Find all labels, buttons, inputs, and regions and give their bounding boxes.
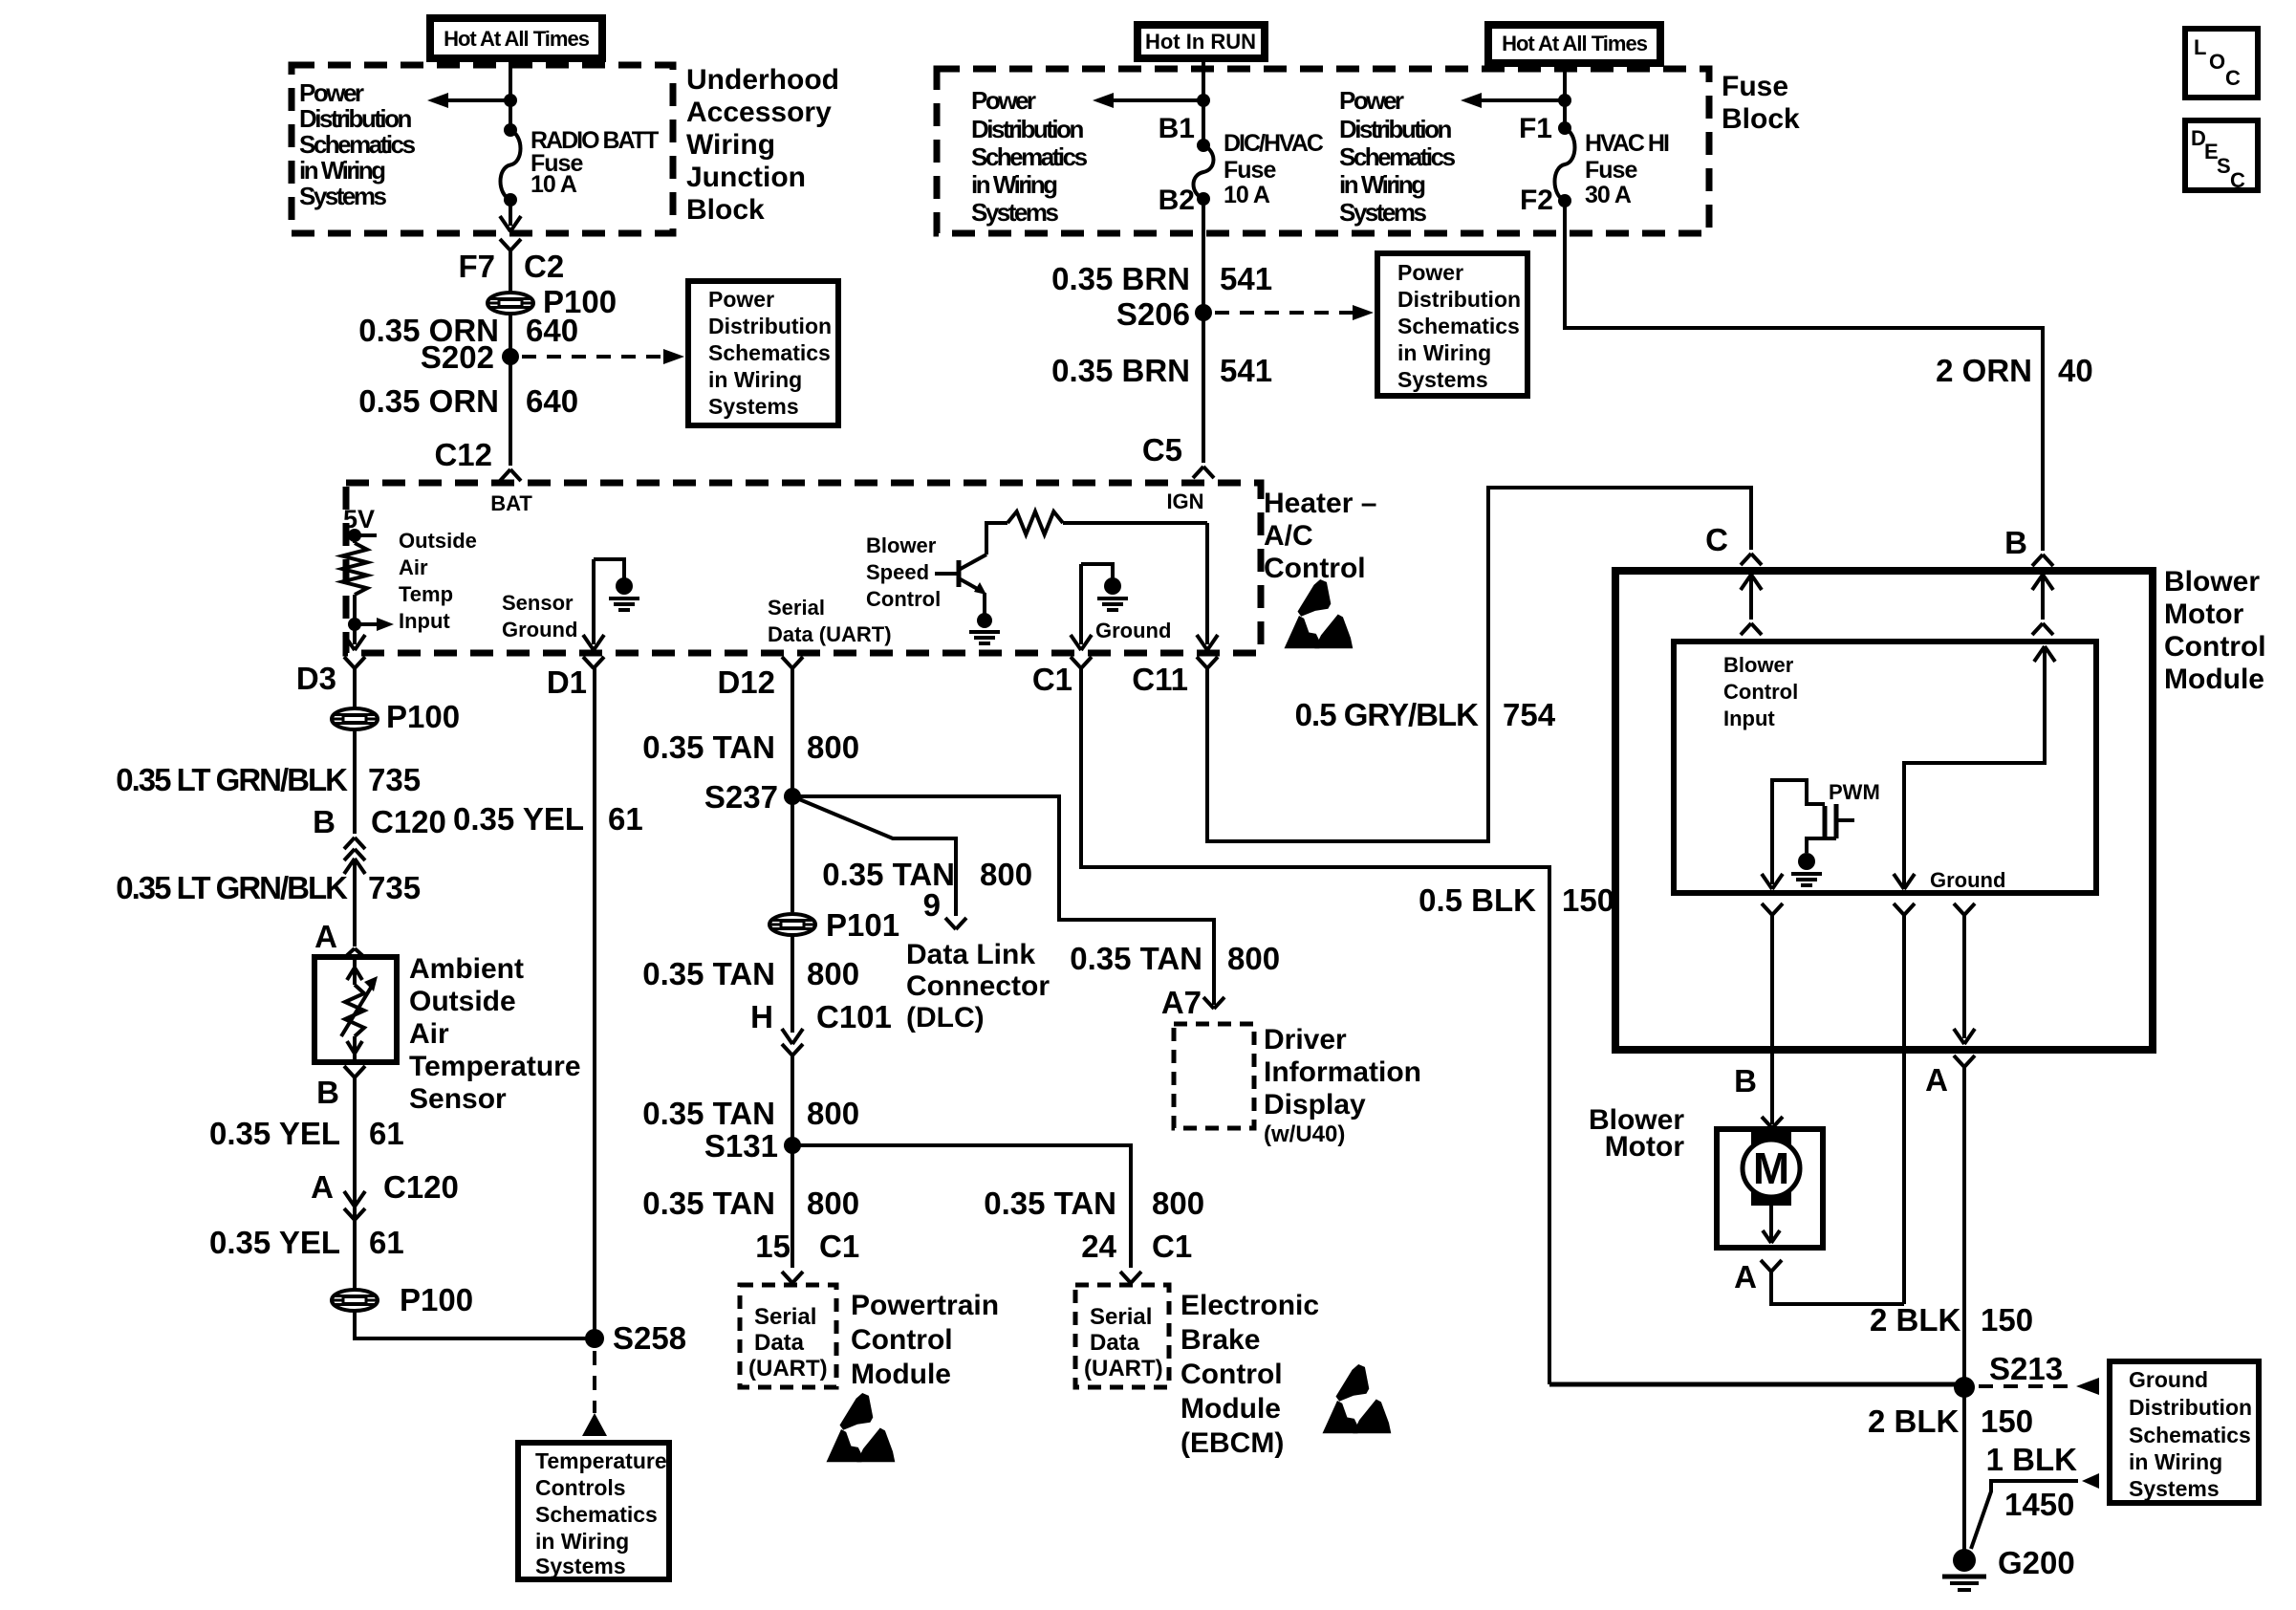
svg-text:Wiring: Wiring (686, 129, 775, 161)
svg-text:Fuse: Fuse (1224, 157, 1276, 184)
svg-text:Ground: Ground (1095, 619, 1171, 642)
svg-text:Schematics: Schematics (708, 340, 831, 365)
svg-text:Accessory: Accessory (686, 97, 832, 128)
svg-text:150: 150 (1981, 1302, 2033, 1338)
svg-text:HVAC HI: HVAC HI (1585, 130, 1669, 157)
svg-text:A/C: A/C (1264, 520, 1313, 552)
svg-text:B1: B1 (1159, 113, 1195, 144)
svg-text:A7: A7 (1161, 985, 1202, 1020)
svg-text:Ground: Ground (2129, 1367, 2208, 1392)
svg-text:Distribution: Distribution (708, 314, 832, 338)
svg-text:C120: C120 (371, 804, 446, 839)
svg-text:Block: Block (686, 194, 765, 226)
svg-text:in Wiring: in Wiring (299, 156, 385, 185)
svg-text:30 A: 30 A (1585, 182, 1632, 208)
svg-text:Distribution: Distribution (1397, 287, 1521, 312)
svg-text:Powertrain: Powertrain (851, 1290, 999, 1321)
svg-text:Systems: Systems (1397, 367, 1488, 392)
svg-text:C101: C101 (816, 999, 892, 1034)
svg-text:(UART): (UART) (748, 1356, 828, 1382)
svg-text:Data: Data (754, 1330, 805, 1356)
svg-text:Power: Power (299, 78, 364, 107)
svg-text:in Wiring: in Wiring (1339, 170, 1425, 199)
svg-text:S237: S237 (704, 779, 778, 815)
svg-text:Outside: Outside (399, 529, 477, 553)
svg-text:800: 800 (807, 956, 859, 991)
svg-text:800: 800 (1152, 1186, 1204, 1221)
svg-text:Electronic: Electronic (1180, 1290, 1319, 1321)
svg-text:Schematics: Schematics (299, 130, 416, 159)
svg-text:(EBCM): (EBCM) (1180, 1427, 1284, 1459)
svg-text:A: A (314, 919, 337, 954)
svg-text:0.35 ORN: 0.35 ORN (358, 383, 499, 419)
svg-text:Power: Power (971, 86, 1036, 115)
svg-text:DIC/HVAC: DIC/HVAC (1224, 130, 1324, 157)
svg-text:Distribution: Distribution (299, 104, 411, 133)
svg-text:Temp: Temp (399, 582, 453, 606)
svg-text:Ground: Ground (502, 618, 577, 642)
svg-text:S131: S131 (704, 1128, 778, 1164)
svg-text:Distribution: Distribution (1339, 115, 1451, 143)
svg-text:Ambient: Ambient (409, 953, 524, 985)
svg-text:Module: Module (1180, 1393, 1281, 1425)
svg-text:Module: Module (851, 1359, 951, 1390)
svg-text:Schematics: Schematics (1397, 314, 1520, 338)
svg-text:C: C (2230, 168, 2245, 192)
svg-text:Input: Input (1723, 707, 1775, 730)
svg-text:H: H (750, 999, 773, 1034)
svg-text:10 A: 10 A (531, 171, 577, 198)
svg-text:C5: C5 (1142, 432, 1182, 468)
svg-text:S213: S213 (1989, 1351, 2063, 1386)
svg-text:150: 150 (1981, 1403, 2033, 1439)
svg-text:9: 9 (923, 887, 941, 923)
svg-text:Sensor: Sensor (502, 591, 574, 615)
svg-text:Schematics: Schematics (2129, 1423, 2251, 1447)
svg-text:Connector: Connector (906, 970, 1050, 1002)
svg-text:800: 800 (807, 1096, 859, 1131)
svg-text:800: 800 (980, 857, 1032, 892)
svg-text:Driver: Driver (1264, 1024, 1347, 1055)
svg-text:A: A (1925, 1062, 1948, 1098)
svg-text:24: 24 (1081, 1229, 1116, 1264)
svg-text:Fuse: Fuse (1722, 71, 1788, 102)
svg-text:Fuse: Fuse (1585, 157, 1637, 184)
svg-text:0.35 YEL: 0.35 YEL (209, 1116, 340, 1151)
svg-text:Blower: Blower (1723, 653, 1794, 677)
svg-text:Hot At All Times: Hot At All Times (444, 27, 590, 51)
svg-text:Data: Data (1090, 1330, 1140, 1356)
svg-text:O: O (2209, 50, 2225, 74)
svg-text:Blower: Blower (866, 533, 937, 557)
svg-text:C: C (1705, 522, 1728, 557)
svg-text:Module: Module (2164, 664, 2264, 695)
svg-text:Systems: Systems (1339, 198, 1426, 227)
svg-text:Controls: Controls (535, 1475, 626, 1500)
svg-text:2 BLK: 2 BLK (1870, 1302, 1961, 1338)
svg-text:Serial: Serial (1090, 1304, 1152, 1330)
svg-text:0.35 BRN: 0.35 BRN (1051, 261, 1190, 296)
svg-text:640: 640 (526, 383, 578, 419)
svg-text:0.5 BLK: 0.5 BLK (1419, 882, 1536, 918)
svg-text:C1: C1 (1152, 1229, 1192, 1264)
svg-text:Control: Control (866, 587, 941, 611)
svg-text:61: 61 (369, 1225, 404, 1260)
svg-text:0.35 TAN: 0.35 TAN (642, 729, 775, 765)
svg-text:61: 61 (608, 801, 643, 837)
svg-text:D3: D3 (296, 661, 336, 696)
svg-text:Distribution: Distribution (2129, 1395, 2252, 1420)
svg-text:in Wiring: in Wiring (1397, 340, 1491, 365)
svg-text:Schematics: Schematics (1339, 142, 1456, 171)
svg-text:541: 541 (1220, 261, 1272, 296)
svg-text:Heater –: Heater – (1264, 488, 1376, 519)
svg-text:Block: Block (1722, 103, 1800, 135)
svg-text:Ground: Ground (1930, 868, 2005, 892)
svg-text:Control: Control (2164, 631, 2266, 663)
svg-text:Distribution: Distribution (971, 115, 1083, 143)
svg-text:Schematics: Schematics (971, 142, 1088, 171)
svg-text:Control: Control (851, 1324, 953, 1356)
svg-text:0.35 TAN: 0.35 TAN (984, 1186, 1116, 1221)
svg-text:0.35 TAN: 0.35 TAN (642, 1186, 775, 1221)
svg-text:Serial: Serial (754, 1304, 816, 1330)
svg-text:15: 15 (755, 1229, 791, 1264)
svg-text:0.35 TAN: 0.35 TAN (1070, 941, 1202, 976)
svg-text:C: C (2225, 66, 2241, 90)
svg-text:PWM: PWM (1829, 780, 1880, 804)
svg-text:B: B (316, 1075, 339, 1110)
svg-text:0.35 TAN: 0.35 TAN (642, 956, 775, 991)
svg-text:B: B (1734, 1063, 1757, 1099)
svg-text:B2: B2 (1159, 185, 1195, 216)
svg-text:Temperature: Temperature (535, 1448, 667, 1473)
svg-text:(DLC): (DLC) (906, 1002, 985, 1033)
svg-text:Serial: Serial (768, 596, 825, 620)
svg-text:in Wiring: in Wiring (535, 1529, 629, 1554)
svg-text:Hot At All Times: Hot At All Times (1502, 32, 1648, 55)
svg-text:in Wiring: in Wiring (708, 367, 802, 392)
svg-text:0.35 LT GRN/BLK: 0.35 LT GRN/BLK (116, 870, 348, 905)
svg-text:Power: Power (708, 287, 774, 312)
svg-text:Motor: Motor (2164, 598, 2244, 630)
svg-text:Blower: Blower (2164, 566, 2260, 598)
svg-text:Junction: Junction (686, 162, 806, 193)
svg-text:1 BLK: 1 BLK (1986, 1442, 2078, 1477)
svg-text:Brake: Brake (1180, 1324, 1260, 1356)
svg-text:Schematics: Schematics (535, 1502, 658, 1527)
svg-text:Outside: Outside (409, 986, 516, 1017)
svg-text:541: 541 (1220, 353, 1272, 388)
svg-text:800: 800 (1227, 941, 1280, 976)
svg-text:A: A (1734, 1259, 1757, 1295)
svg-text:10 A: 10 A (1224, 182, 1270, 208)
svg-text:Systems: Systems (535, 1554, 626, 1578)
svg-text:B: B (313, 804, 336, 839)
svg-text:C120: C120 (383, 1169, 459, 1205)
svg-text:G200: G200 (1998, 1545, 2075, 1580)
svg-text:L: L (2194, 35, 2206, 59)
svg-text:Power: Power (1339, 86, 1404, 115)
svg-text:800: 800 (807, 729, 859, 765)
svg-text:BAT: BAT (490, 491, 532, 515)
svg-text:2 BLK: 2 BLK (1868, 1403, 1960, 1439)
svg-text:C12: C12 (434, 437, 492, 472)
svg-text:0.5 GRY/BLK: 0.5 GRY/BLK (1295, 697, 1479, 732)
svg-text:S258: S258 (613, 1320, 686, 1356)
svg-text:150: 150 (1562, 882, 1614, 918)
svg-text:0.35 BRN: 0.35 BRN (1051, 353, 1190, 388)
svg-text:C2: C2 (524, 249, 564, 284)
svg-text:61: 61 (369, 1116, 404, 1151)
svg-text:IGN: IGN (1166, 490, 1203, 513)
svg-text:0.35 YEL: 0.35 YEL (453, 801, 584, 837)
svg-text:(w/U40): (w/U40) (1264, 1121, 1345, 1147)
svg-text:Control: Control (1264, 553, 1366, 584)
svg-text:S202: S202 (421, 339, 494, 375)
svg-text:Systems: Systems (2129, 1476, 2220, 1501)
svg-text:S: S (2217, 154, 2231, 178)
svg-text:735: 735 (368, 762, 421, 797)
svg-text:Systems: Systems (299, 182, 386, 210)
svg-text:0.35 LT GRN/BLK: 0.35 LT GRN/BLK (116, 762, 348, 797)
svg-text:F7: F7 (458, 249, 495, 284)
svg-text:Air: Air (409, 1018, 449, 1050)
svg-text:2 ORN: 2 ORN (1936, 353, 2032, 388)
svg-text:A: A (311, 1169, 334, 1205)
svg-text:1450: 1450 (2004, 1487, 2074, 1522)
svg-text:F2: F2 (1520, 185, 1553, 216)
svg-text:D12: D12 (717, 664, 775, 700)
svg-text:Display: Display (1264, 1089, 1366, 1120)
svg-text:Systems: Systems (708, 394, 799, 419)
svg-text:Underhood: Underhood (686, 64, 839, 96)
svg-text:Air: Air (399, 555, 428, 579)
svg-text:Temperature: Temperature (409, 1051, 581, 1082)
svg-text:40: 40 (2058, 353, 2093, 388)
svg-text:Input: Input (399, 609, 450, 633)
svg-text:Power: Power (1397, 260, 1463, 285)
svg-text:P100: P100 (386, 699, 460, 734)
svg-text:P100: P100 (400, 1282, 473, 1317)
svg-text:in Wiring: in Wiring (971, 170, 1057, 199)
svg-text:in Wiring: in Wiring (2129, 1449, 2222, 1474)
svg-text:M: M (1753, 1143, 1789, 1193)
svg-text:F1: F1 (1519, 113, 1552, 144)
svg-text:735: 735 (368, 870, 421, 905)
svg-text:Control: Control (1180, 1359, 1283, 1390)
svg-text:Data (UART): Data (UART) (768, 622, 892, 646)
svg-text:0.35 YEL: 0.35 YEL (209, 1225, 340, 1260)
svg-text:Information: Information (1264, 1056, 1421, 1088)
svg-text:800: 800 (807, 1186, 859, 1221)
svg-text:5V: 5V (343, 505, 375, 533)
svg-text:0.35 TAN: 0.35 TAN (642, 1096, 775, 1131)
svg-text:B: B (2004, 525, 2027, 560)
svg-text:Data Link: Data Link (906, 939, 1035, 970)
svg-text:Motor: Motor (1605, 1131, 1685, 1163)
svg-text:P101: P101 (826, 907, 899, 943)
svg-text:(UART): (UART) (1084, 1356, 1163, 1382)
svg-text:C1: C1 (819, 1229, 859, 1264)
svg-text:D1: D1 (547, 664, 587, 700)
svg-text:Speed: Speed (866, 560, 929, 584)
svg-text:C1: C1 (1032, 662, 1072, 697)
svg-text:Hot In RUN: Hot In RUN (1145, 30, 1256, 54)
svg-text:C11: C11 (1132, 662, 1188, 697)
svg-text:Sensor: Sensor (409, 1083, 507, 1115)
svg-text:640: 640 (526, 313, 578, 348)
svg-text:Control: Control (1723, 680, 1798, 704)
svg-text:754: 754 (1503, 697, 1556, 732)
svg-text:Systems: Systems (971, 198, 1058, 227)
svg-text:S206: S206 (1116, 296, 1190, 332)
